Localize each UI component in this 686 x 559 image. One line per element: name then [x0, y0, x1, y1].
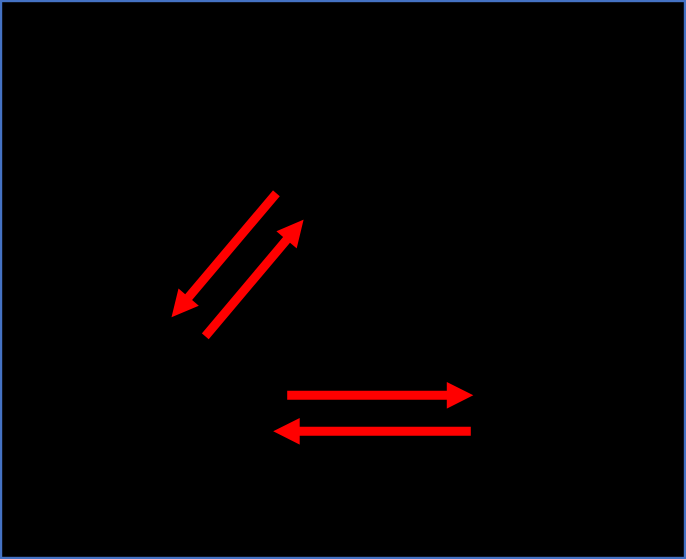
arrow pointing down-left — [172, 190, 280, 317]
arrow pointing up-right — [202, 220, 304, 340]
arrow pointing left — [273, 418, 471, 445]
equilibrium arrow pair (diagonal, solid-gas) — [172, 190, 304, 339]
arrow pointing right — [287, 382, 473, 409]
equilibrium arrow pair (horizontal, solid-liquid) — [273, 382, 473, 445]
